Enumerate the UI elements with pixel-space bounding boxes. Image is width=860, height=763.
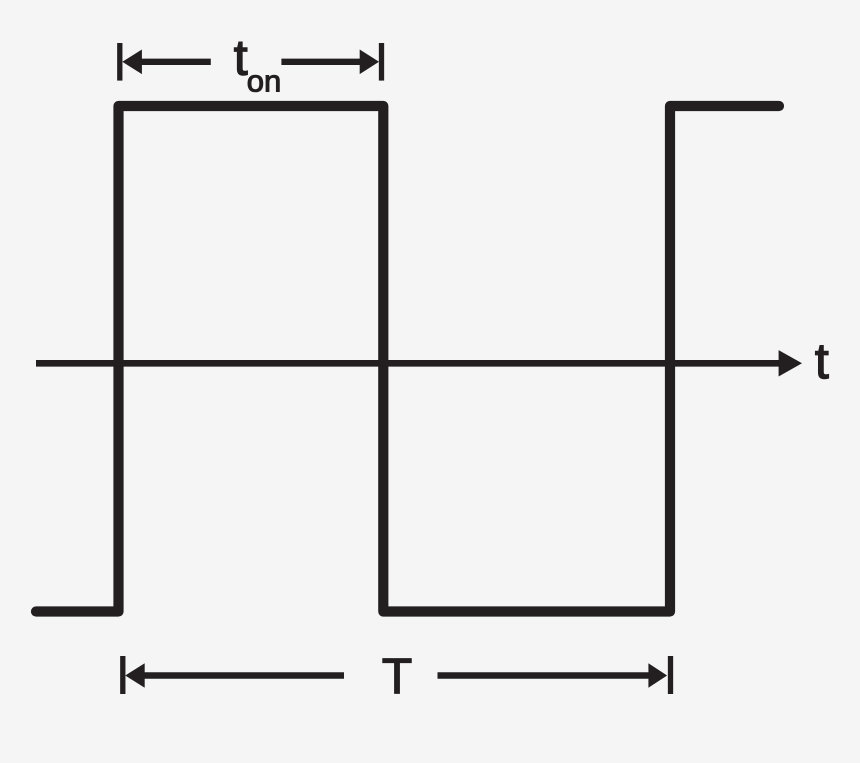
- square wave PWM waveform: [36, 106, 779, 612]
- svg-text:on: on: [247, 64, 281, 99]
- svg-text:T: T: [382, 648, 413, 704]
- dimension t_on left arrowhead: [122, 50, 142, 75]
- svg-text:t: t: [815, 333, 829, 389]
- dimension T right tick: [668, 656, 673, 694]
- dimension t_on right shaft: [281, 59, 360, 65]
- dimension t_on left tick: [117, 43, 122, 81]
- dimension T right shaft: [438, 672, 649, 678]
- svg-text:t: t: [234, 30, 248, 86]
- time axis: [36, 360, 785, 367]
- dimension label t_on: [234, 30, 281, 99]
- dimension t_on right tick: [379, 43, 384, 81]
- dimension T left arrowhead: [125, 663, 144, 688]
- dimension T left tick: [120, 656, 125, 694]
- axis label t: [815, 333, 829, 389]
- dimension label T: [382, 648, 413, 704]
- dimension t_on right arrowhead: [360, 50, 379, 75]
- dimension T right arrowhead: [648, 663, 667, 688]
- time axis arrowhead: [779, 350, 802, 376]
- dimension t_on left shaft: [141, 59, 211, 65]
- dimension T left shaft: [144, 672, 344, 678]
